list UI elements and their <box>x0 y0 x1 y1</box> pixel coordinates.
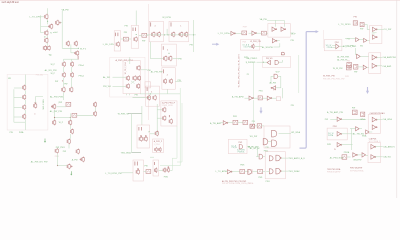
flip-flop square FF6 <box>361 112 365 116</box>
wire <box>113 76 126 78</box>
inverter U43 <box>223 121 228 125</box>
subcircuit box E' <box>146 86 160 106</box>
svg-text:AL_PW_W1 PW: AL_PW_W1 PW <box>31 160 49 163</box>
relay K4 <box>146 170 151 174</box>
transistor M5 <box>43 45 46 51</box>
transistor M47 <box>169 56 172 62</box>
subcircuit box D <box>162 68 175 90</box>
stack mark <box>170 22 172 26</box>
flip-flop square FF1 <box>353 21 357 25</box>
subcircuit box P1 <box>263 56 291 67</box>
svg-text:W_P: W_P <box>276 72 281 74</box>
svg-text:W_P: W_P <box>51 73 56 75</box>
wire <box>135 11 137 26</box>
gate U14 <box>271 86 276 90</box>
transistor M30 <box>76 149 79 155</box>
wire <box>95 107 97 111</box>
svg-text:PW: PW <box>144 165 147 167</box>
wire <box>24 75 26 86</box>
wire <box>256 148 258 157</box>
gate U41 <box>272 140 277 147</box>
transistor M54 <box>169 118 172 124</box>
svg-text:AL_PW_PW: AL_PW_PW <box>151 71 163 74</box>
svg-text:P1: P1 <box>273 88 275 90</box>
svg-text:C/A_W1A: C/A_W1A <box>383 118 393 121</box>
subcircuit box M7 <box>137 125 150 148</box>
transistor M26 <box>69 120 72 126</box>
svg-text:PW1A: PW1A <box>344 151 350 154</box>
svg-text:PW: PW <box>64 84 67 86</box>
wire <box>139 34 142 36</box>
subcircuit box N4 <box>370 26 382 44</box>
wire long <box>341 118 366 120</box>
svg-text:W_P: W_P <box>291 33 296 35</box>
transistor M44 <box>178 32 183 38</box>
subcircuit box I <box>133 160 144 181</box>
stack mark <box>162 46 164 50</box>
component X4 <box>249 170 252 174</box>
wire <box>132 152 142 154</box>
wire long vertical <box>193 20 195 52</box>
transistor M31 <box>80 157 85 163</box>
svg-text:W/L 2 W/L: W/L 2 W/L <box>43 99 45 110</box>
junction <box>57 165 58 166</box>
wire <box>128 113 142 115</box>
wire <box>375 146 383 148</box>
gate U13 <box>274 74 278 78</box>
svg-text:PW: PW <box>124 32 127 34</box>
svg-text:PW: PW <box>63 151 66 153</box>
svg-text:PW: PW <box>135 95 138 97</box>
svg-text:PW1: PW1 <box>259 91 263 93</box>
svg-text:AL_PW1_W1A: AL_PW1_W1A <box>330 156 344 159</box>
svg-text:A_TW_APW: A_TW_APW <box>232 96 244 99</box>
transistor M35 <box>137 65 140 71</box>
svg-text:W_PW1_PW: W_PW1_PW <box>250 41 261 43</box>
wire <box>175 81 181 83</box>
svg-text:W PW1A PW1A: W PW1A PW1A <box>350 169 364 172</box>
gate U2 <box>272 27 277 31</box>
transistor M2 <box>48 24 53 30</box>
transistor M19 <box>70 72 73 78</box>
component X3 <box>276 97 280 101</box>
svg-text:W_P: W_P <box>59 122 64 124</box>
relay K3 <box>124 37 129 41</box>
svg-text:1_PW1: 1_PW1 <box>154 144 160 146</box>
flip-flop square FF2 <box>360 23 364 27</box>
subcircuit box B <box>169 21 189 42</box>
inverter U20 <box>363 65 367 69</box>
relay K10 <box>342 155 347 159</box>
svg-text:PW1: PW1 <box>244 57 248 59</box>
svg-text:PW1A: PW1A <box>327 46 333 49</box>
wire <box>47 20 49 25</box>
transistor M34 <box>116 41 119 47</box>
junction <box>62 80 63 81</box>
subcircuit box A <box>149 21 163 42</box>
svg-text:AL_W1: AL_W1 <box>103 76 111 79</box>
wire <box>276 87 281 89</box>
wire <box>159 170 163 172</box>
svg-text:AL_PW_PW: AL_PW_PW <box>50 110 63 113</box>
subcircuit box P4 <box>327 128 347 140</box>
wire <box>177 161 182 163</box>
wire <box>245 171 249 173</box>
svg-text:AL_PW: AL_PW <box>270 82 277 85</box>
transistor M22 <box>51 104 56 110</box>
svg-text:VA_PW: VA_PW <box>62 9 69 12</box>
wire <box>69 134 71 139</box>
wire <box>63 59 65 62</box>
subcircuit box H <box>368 142 380 162</box>
wire <box>255 45 262 47</box>
inverter U10 <box>364 38 367 42</box>
svg-text:A_TW_AW1: A_TW_AW1 <box>210 122 222 125</box>
wire <box>160 165 180 167</box>
svg-text:PW: PW <box>354 17 357 19</box>
svg-text:PW W1 PW1A PW1A_PW1A_PW: PW W1 PW1A PW1A_PW1A_PW <box>222 182 251 185</box>
svg-text:CO1_PW: CO1_PW <box>345 46 354 48</box>
wire <box>141 106 143 125</box>
svg-text:PW: PW <box>55 81 58 83</box>
gate U34 <box>259 154 263 159</box>
svg-text:P1: P1 <box>247 74 249 76</box>
svg-text:AL_PW_PW1: AL_PW_PW1 <box>50 96 64 99</box>
stack mark <box>134 162 136 166</box>
gate U11 <box>267 60 270 64</box>
wire <box>149 42 151 59</box>
relay K6 <box>262 31 267 35</box>
relay K2 <box>142 33 147 37</box>
stack mark <box>153 162 155 165</box>
wire <box>172 157 177 159</box>
gate U42 <box>263 139 268 145</box>
stack mark <box>163 69 165 73</box>
transistor M39 <box>126 83 129 89</box>
subcircuit box inner <box>123 61 141 94</box>
subcircuit box K <box>228 139 247 153</box>
svg-text:PW1: PW1 <box>238 142 242 144</box>
relay K7 <box>258 96 262 100</box>
transistor M32 <box>67 164 72 170</box>
inverter U32 <box>227 170 232 174</box>
relay K11 <box>257 124 261 128</box>
inverter U26 <box>356 127 360 131</box>
svg-text:C/A_AW1PW1: C/A_AW1PW1 <box>382 56 396 59</box>
inverter U15 <box>249 96 254 100</box>
wire <box>341 144 352 146</box>
transistor M60 <box>167 167 170 173</box>
transistor M29 <box>55 148 58 154</box>
gate U7 <box>373 27 378 31</box>
transistor M16 <box>62 61 65 67</box>
transistor M45 <box>185 32 188 38</box>
gate U37 <box>269 169 273 174</box>
transistor M25 <box>53 120 56 126</box>
transistor M15 <box>74 50 79 56</box>
junction <box>150 93 151 94</box>
svg-text:W1A PW: W1A PW <box>353 159 361 162</box>
transistor M23 <box>93 102 96 108</box>
svg-text:TW1_W1A2: TW1_W1A2 <box>288 170 300 173</box>
svg-text:W_DPW: W_DPW <box>162 17 171 19</box>
svg-text:PW=1: PW=1 <box>79 65 85 67</box>
gate U6 <box>336 44 339 49</box>
svg-text:C/A_AW1: C/A_AW1 <box>382 65 392 68</box>
subcircuit box U_L2 <box>7 75 48 131</box>
svg-text:L_TO_DPS: L_TO_DPS <box>218 33 230 35</box>
wire <box>63 92 65 100</box>
wire <box>358 66 363 68</box>
svg-text:PW1: PW1 <box>258 177 262 179</box>
subcircuit box D2 <box>264 126 290 148</box>
transistor M40 <box>137 83 140 89</box>
svg-text:VA_PW: VA_PW <box>260 18 267 21</box>
svg-text:TW1_AW1V_A_D: TW1_AW1V_A_D <box>288 157 305 160</box>
transistor M27 <box>70 129 73 135</box>
subcircuit box U_M3b <box>131 26 139 49</box>
transistor M57 <box>159 147 162 152</box>
subcircuit box N2 <box>268 24 290 38</box>
wire <box>278 75 281 77</box>
stack mark <box>150 22 152 26</box>
inverter U4 <box>252 31 257 35</box>
gate U36 <box>276 155 281 161</box>
wire main row <box>146 34 196 36</box>
wire <box>121 172 134 174</box>
wire <box>252 171 257 173</box>
wire <box>282 55 284 56</box>
wire <box>273 46 279 48</box>
svg-text:PWW_W1W: PWW_W1W <box>162 105 173 107</box>
inverter U21 <box>337 117 342 121</box>
wire <box>255 125 257 127</box>
relay K5 <box>242 31 247 35</box>
gate U25 <box>372 125 377 130</box>
stack mark <box>132 28 134 32</box>
svg-text:$_PWRW1: $_PWRW1 <box>246 62 257 64</box>
relay K13 <box>243 120 248 124</box>
sheet border top <box>0 0 400 1</box>
svg-text:W1A: W1A <box>360 118 365 121</box>
wire <box>360 56 369 58</box>
svg-text:PW1: PW1 <box>327 144 331 146</box>
svg-text:PW1A W1A PW: PW1A W1A PW <box>327 171 341 174</box>
transistor M9 <box>23 104 26 110</box>
transistor M6 <box>47 45 50 51</box>
svg-text:W_W_PW: W_W_PW <box>333 68 343 70</box>
flip-flop square FF5 <box>353 110 358 115</box>
svg-text:PW1: PW1 <box>335 42 339 44</box>
faint pink line <box>323 30 325 48</box>
wire <box>69 125 71 129</box>
svg-text:PW1: PW1 <box>333 126 337 128</box>
wire <box>141 69 147 71</box>
transistor M55 <box>155 131 158 137</box>
gate U12 <box>275 60 278 64</box>
gate U31 <box>362 153 366 157</box>
wire vertical <box>350 129 352 151</box>
wire <box>225 171 227 173</box>
transistor M8 <box>23 94 26 100</box>
wire <box>247 146 249 148</box>
svg-text:PW: PW <box>178 80 181 82</box>
gate U8 <box>373 35 378 39</box>
svg-text:PW: PW <box>125 25 128 27</box>
transistor M20 <box>62 87 65 93</box>
lavender down arrow <box>366 87 369 94</box>
gate U39 <box>248 169 252 174</box>
wire <box>70 45 72 53</box>
transistor M50 <box>147 95 150 101</box>
gate U19 <box>372 63 377 68</box>
subcircuit box P3 <box>369 53 381 74</box>
wire <box>61 11 63 48</box>
svg-text:L_TO_DPS: L_TO_DPS <box>30 16 42 18</box>
subcircuit box G <box>368 115 380 134</box>
svg-text:PWA: PWA <box>19 131 24 134</box>
relay K8 <box>240 169 245 173</box>
wire <box>156 104 158 134</box>
lavender down arrow 2 <box>259 107 262 114</box>
wire <box>332 44 336 46</box>
wire long vertical right <box>298 55 300 93</box>
wire <box>47 8 49 14</box>
svg-text:TW1 PW1 W1A: TW1 PW1 W1A <box>327 168 341 171</box>
transistor M53 <box>163 115 166 121</box>
wire <box>277 40 280 42</box>
transistor M1 <box>45 14 48 20</box>
svg-text:PW: PW <box>352 107 355 109</box>
svg-text:W: W <box>334 149 336 151</box>
sheet border right <box>396 0 398 198</box>
gate U24 <box>372 117 377 122</box>
wire <box>257 61 268 63</box>
wire <box>364 25 370 30</box>
wire <box>58 165 67 167</box>
wire <box>355 48 356 54</box>
subcircuit box F <box>153 139 164 153</box>
gate U3 <box>281 27 286 31</box>
wire <box>54 110 56 120</box>
svg-text:PW=1: PW=1 <box>79 76 85 78</box>
transistor M18 <box>62 72 65 78</box>
transistor M46 <box>164 56 167 62</box>
svg-text:PW: PW <box>354 72 357 74</box>
transistor M17 <box>70 61 73 67</box>
svg-text:xsch sky130 test: xsch sky130 test <box>2 1 19 4</box>
transistor M64 <box>252 44 254 49</box>
svg-text:PW: PW <box>347 39 350 41</box>
transistor M52 <box>163 107 166 113</box>
svg-text:AL_PW_PW1: AL_PW_PW1 <box>337 55 350 58</box>
component X2 <box>145 82 151 88</box>
svg-text:TW1_W1A: TW1_W1A <box>121 152 132 155</box>
svg-text:L_RL_DPS: L_RL_DPS <box>103 44 114 46</box>
transistor M37 <box>137 75 140 81</box>
wire <box>63 67 65 73</box>
svg-text:CO_PW: CO_PW <box>384 29 392 31</box>
svg-text:PW_W1_PW_PW1_PW: PW_W1_PW_PW1_PW <box>323 79 345 81</box>
wire long vertical left <box>253 62 255 98</box>
wire <box>166 29 168 35</box>
svg-text:W1_W1A: W1_W1A <box>291 131 300 134</box>
wire <box>61 22 63 24</box>
junction <box>70 117 71 118</box>
subcircuit box U_M3a <box>114 31 121 51</box>
svg-text:PW: PW <box>190 45 193 47</box>
svg-text:PW: PW <box>291 40 294 42</box>
wire <box>245 97 250 99</box>
wire <box>345 37 356 39</box>
svg-text:PW: PW <box>360 28 363 30</box>
svg-text:PW_W1: PW_W1 <box>36 75 44 77</box>
svg-text:AL_W1-PW: AL_W1-PW <box>262 46 273 49</box>
svg-text:PWW1A: PWW1A <box>238 150 246 153</box>
svg-text:C/A_W1: C/A_W1 <box>383 155 392 158</box>
component U_P2 box <box>347 65 352 70</box>
inverter U5 <box>272 39 277 43</box>
wire <box>62 47 78 49</box>
wire <box>220 122 223 124</box>
svg-text:PW: PW <box>178 58 181 60</box>
gate U18 <box>372 55 377 60</box>
gate U33 <box>239 145 242 149</box>
transistor M12 <box>56 20 61 26</box>
wire <box>347 156 351 158</box>
svg-text:PW1: PW1 <box>55 156 59 158</box>
wire <box>57 154 59 166</box>
junction <box>78 48 79 49</box>
wire stub <box>126 94 128 96</box>
svg-text:PW: PW <box>291 105 294 107</box>
svg-text:PW1: PW1 <box>266 181 270 183</box>
inverter U23 <box>337 143 342 147</box>
svg-text:A_PW1_P: A_PW1_P <box>154 140 163 143</box>
transistor M36 <box>133 75 136 81</box>
svg-text:W1A: W1A <box>362 135 367 138</box>
wire <box>281 170 288 172</box>
gate U28 <box>371 144 376 149</box>
wire <box>256 156 259 158</box>
svg-text:PW1A: PW1A <box>248 182 254 185</box>
wire <box>266 32 268 34</box>
gate U40 <box>272 130 277 137</box>
gate U16 <box>267 96 272 100</box>
pin opin <box>70 171 72 175</box>
svg-text:W1_PW: W1_PW <box>250 136 257 138</box>
transistor M13 <box>66 41 69 47</box>
transistor M61 <box>139 135 142 141</box>
subcircuit box N3 <box>324 40 342 51</box>
transistor M11 <box>34 102 37 108</box>
svg-text:W_PW1_PW: W_PW1_PW <box>323 76 335 78</box>
wire <box>129 57 131 64</box>
svg-text:L_TO_DPS1: L_TO_DPS1 <box>338 24 351 26</box>
subcircuit box C <box>161 44 176 66</box>
stack mark <box>146 87 148 91</box>
wire <box>150 156 154 158</box>
transistor M49 <box>169 78 172 84</box>
junction <box>193 34 194 35</box>
wire <box>279 133 291 135</box>
svg-text:PW1: PW1 <box>345 76 349 78</box>
svg-text:W_PW1_PW_P1_PW1_W_P1_W1V: W_PW1_PW_P1_PW1_W_P1_W1V <box>239 54 241 88</box>
svg-text:L_TO_DPS1_PW: L_TO_DPS1_PW <box>105 173 121 175</box>
wire <box>281 157 288 159</box>
inverter U9 <box>356 38 359 42</box>
transistor M63 <box>136 168 139 174</box>
